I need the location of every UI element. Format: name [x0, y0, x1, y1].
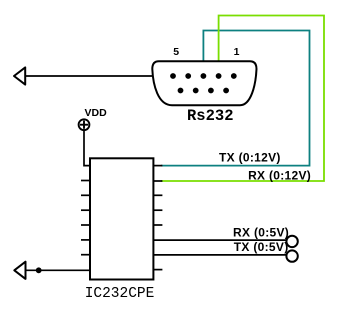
- IC right pin stub 4: [153, 209, 162, 211]
- IC right pin stub 8: [153, 269, 162, 271]
- wire TX 0:5V: [153, 254, 287, 256]
- IC left pin stub 2: [81, 180, 90, 182]
- wire RX 0:12V (green) from DB9 pin 2 to IC pin: [161, 16, 324, 182]
- svg-text:IC232CPE: IC232CPE: [85, 286, 155, 302]
- wire TX 0:12V (teal) from DB9 pin 3 to IC pin: [161, 31, 310, 166]
- junction dot: [36, 267, 42, 273]
- terminal circle TX: [286, 250, 297, 261]
- svg-text:RX (0:12V): RX (0:12V): [248, 168, 311, 182]
- wire from bottom arrow to IC pin 8: [25, 269, 90, 271]
- IC left pin stub 3: [81, 194, 90, 196]
- power VDD symbol: [79, 119, 90, 130]
- DB9 pin 1: [231, 73, 237, 79]
- connector Rs232 DB9 outline: [152, 61, 256, 105]
- svg-text:Rs232: Rs232: [187, 107, 234, 125]
- arrow (left, bottom): [14, 262, 25, 279]
- IC U1 body: [90, 158, 153, 279]
- IC right pin stub 5: [153, 224, 162, 226]
- wire VDD to IC pin 1: [84, 130, 90, 166]
- DB9 pin 4: [185, 73, 191, 79]
- DB9 pin 7: [208, 88, 214, 94]
- svg-text:5: 5: [173, 46, 179, 58]
- wire RX 0:5V: [153, 239, 287, 241]
- svg-text:TX (0:12V): TX (0:12V): [219, 151, 281, 165]
- IC right pin stub 2: [153, 180, 162, 182]
- DB9 pin 8: [193, 88, 199, 94]
- DB9 pin 5: [170, 73, 176, 79]
- terminal circle RX: [286, 236, 297, 247]
- IC left pin stub 4: [81, 209, 90, 211]
- arrow (left, top): [14, 67, 25, 84]
- wire from left arrow to DB9 pin 5: [25, 75, 173, 77]
- DB9 pin 3: [201, 73, 207, 79]
- IC left pin stub 5: [81, 224, 90, 226]
- svg-text:RX (0:5V): RX (0:5V): [233, 225, 289, 239]
- DB9 pin 9: [178, 88, 184, 94]
- DB9 pin 6: [223, 88, 229, 94]
- IC left pin stub 7: [81, 254, 90, 256]
- DB9 pin 2: [216, 73, 222, 79]
- svg-text:TX (0:5V): TX (0:5V): [234, 240, 289, 254]
- svg-text:1: 1: [234, 46, 240, 58]
- IC left pin stub 6: [81, 239, 90, 241]
- IC right pin stub 3: [153, 194, 162, 196]
- IC right pin stub 1: [153, 165, 162, 167]
- svg-text:VDD: VDD: [85, 107, 108, 119]
